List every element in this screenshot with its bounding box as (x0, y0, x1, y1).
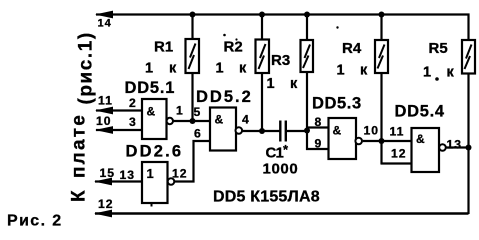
svg-text:к: к (169, 61, 177, 77)
svg-text:12: 12 (391, 147, 407, 161)
wire C1 to DD5.3 inputs (287, 130, 307, 132)
svg-text:2: 2 (129, 96, 137, 110)
junction DD5.1 output / R1 (190, 118, 196, 124)
wire top supply rail (96, 15, 469, 41)
value label R5: 1 к (423, 65, 455, 81)
gate DD2.6 (inverter "1") (142, 162, 168, 203)
wire DD5.1 input pin 3 (96, 129, 142, 131)
value label R2: 1 к (216, 61, 248, 77)
svg-text:к: к (360, 63, 368, 79)
svg-text:5: 5 (194, 105, 202, 119)
svg-text:R2: R2 (224, 39, 243, 56)
value label R1: 1 к (145, 61, 177, 77)
wire R2 bottom lead (261, 73, 263, 131)
output bubble DD2.6 (168, 178, 175, 185)
svg-text:к: к (290, 76, 298, 92)
svg-text:&: & (215, 113, 224, 127)
junction top rail / R1 (190, 12, 196, 18)
svg-text:к: к (447, 65, 455, 81)
gate DD5.2 (NAND) (210, 108, 236, 151)
svg-text:1000: 1000 (263, 161, 299, 178)
svg-text:1: 1 (337, 63, 345, 79)
svg-text:Рис. 2: Рис. 2 (7, 213, 63, 230)
junction DD5.3 output / R4 (379, 138, 385, 144)
wire R1 bottom lead (191, 73, 193, 121)
junction DD5.4 output / R5 / bottom rail (466, 145, 472, 151)
wire R5 bottom lead / output net to bottom rail (467, 74, 469, 215)
gate DD5.1 (NAND) (142, 99, 167, 139)
wire bottom rail to pin 12 (95, 212, 469, 214)
svg-text:к: к (239, 61, 247, 77)
gate DD5.3 (NAND) (329, 118, 357, 159)
speck artifact near R4 label (336, 26, 338, 28)
svg-text:8: 8 (315, 115, 323, 129)
speck artifact near R2 right (235, 38, 237, 40)
output bubble DD5.3 (355, 138, 362, 145)
stub artifact below DD2.6 (151, 203, 153, 207)
svg-text:10: 10 (96, 114, 112, 128)
svg-text:&: & (147, 105, 156, 119)
svg-text:&: & (333, 124, 342, 138)
value label R3: 1 к (267, 76, 299, 92)
wire DD5.1 input pin 2 (96, 109, 142, 111)
wire R3 bottom lead (306, 72, 308, 150)
junction top rail / R2 (259, 12, 265, 18)
wire DD2.6 output to DD5.2 pin 6 (175, 141, 211, 182)
resistor R4 (375, 40, 388, 73)
net label К плате (рис.1) (69, 31, 97, 202)
svg-text:R3: R3 (271, 52, 290, 69)
svg-text:6: 6 (194, 127, 202, 141)
svg-text:DD5.3: DD5.3 (312, 95, 362, 113)
svg-text:12: 12 (98, 197, 114, 211)
wire DD5.2 output to C1 (242, 130, 280, 132)
arrow pin 11 to board (95, 107, 113, 115)
speck artifact near R2 (223, 34, 226, 37)
svg-text:DD5.1: DD5.1 (125, 79, 176, 97)
svg-text:14: 14 (98, 18, 112, 30)
svg-text:DD5 К155ЛА8: DD5 К155ЛА8 (213, 189, 320, 206)
gate DD5.4 (NAND) (412, 128, 440, 172)
svg-text:1: 1 (176, 104, 184, 118)
junction DD5.2 output / R2 (259, 128, 265, 134)
wire DD5.4 pin 12 stub (381, 162, 412, 164)
svg-text:R1: R1 (154, 39, 173, 56)
resistor R3 (301, 40, 314, 72)
svg-text:11: 11 (390, 125, 405, 139)
svg-text:R4: R4 (342, 40, 362, 57)
svg-text:DD2.6: DD2.6 (126, 143, 184, 161)
resistor R1 (186, 39, 200, 73)
wire R4 bottom lead (380, 73, 382, 164)
svg-text:15: 15 (100, 166, 116, 180)
wire DD5.3 pin 9 stub (306, 148, 329, 150)
svg-text:11: 11 (98, 94, 113, 108)
resistor R2 (256, 40, 270, 74)
wire DD2.6 input pin 13 (95, 180, 142, 182)
svg-text:R5: R5 (429, 40, 448, 57)
svg-text:9: 9 (315, 137, 323, 151)
svg-text:1: 1 (216, 61, 224, 77)
wire R3 top lead (306, 15, 308, 41)
arrow pin 12 to board (94, 210, 112, 218)
resistor R5 (462, 40, 475, 74)
svg-text:13: 13 (447, 138, 463, 152)
wire DD5.4 output to right rail (446, 146, 469, 148)
arrow pin 10 to board (95, 126, 113, 134)
junction top rail / R4 (379, 12, 385, 18)
svg-text:1: 1 (423, 65, 431, 81)
svg-text:C1: C1 (266, 145, 284, 162)
output bubble DD5.1 (167, 118, 173, 124)
output bubble DD5.4 (439, 144, 446, 151)
junction top rail / R3 (304, 12, 310, 18)
svg-text:К: К (69, 190, 90, 202)
wire DD5.1 output to DD5.2 pin 5 (173, 120, 210, 122)
svg-text:13: 13 (120, 168, 136, 182)
svg-text:(рис.1): (рис.1) (76, 31, 97, 104)
wire DD5.3 output to DD5.4 pin 11 (363, 140, 412, 142)
svg-text:3: 3 (129, 115, 137, 129)
wire R4 top lead (380, 15, 382, 41)
arrow pin 15 to board (94, 178, 112, 186)
speck artifact under R5 value (435, 77, 439, 81)
wire DD5.3 pin 8 stub (306, 126, 329, 128)
svg-text:1: 1 (147, 166, 154, 181)
svg-text:DD5.4: DD5.4 (395, 103, 445, 121)
output bubble DD5.2 (236, 127, 243, 134)
svg-text:1: 1 (267, 76, 275, 92)
svg-text:плате: плате (69, 113, 90, 178)
capacitor C1 (280, 121, 286, 142)
svg-text:&: & (416, 132, 425, 146)
label C1* (266, 142, 290, 162)
svg-text:4: 4 (242, 113, 250, 127)
junction C1 net / R3 / DD5.3 inputs (304, 128, 310, 134)
wire R1 top lead (191, 15, 193, 40)
svg-text:12: 12 (172, 167, 188, 181)
svg-text:DD5.2: DD5.2 (196, 88, 253, 106)
arrow pin 14 to board (95, 11, 113, 19)
value label R4: 1 к (337, 63, 369, 79)
svg-text:1: 1 (145, 61, 153, 77)
svg-text:10: 10 (364, 124, 380, 138)
wire R2 top lead (261, 15, 263, 40)
